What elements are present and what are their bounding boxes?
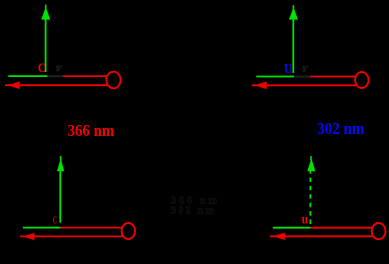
svg-text:u: u — [302, 213, 308, 228]
svg-text:C: C — [53, 215, 57, 226]
svg-text:366 nm: 366 nm — [68, 121, 115, 140]
svg-text:C: C — [38, 61, 46, 75]
svg-text:302 nm: 302 nm — [171, 206, 214, 217]
svg-text:302 nm: 302 nm — [317, 119, 364, 138]
svg-text:U: U — [284, 62, 292, 77]
svg-text:5': 5' — [302, 65, 308, 74]
svg-text:5': 5' — [56, 64, 62, 73]
